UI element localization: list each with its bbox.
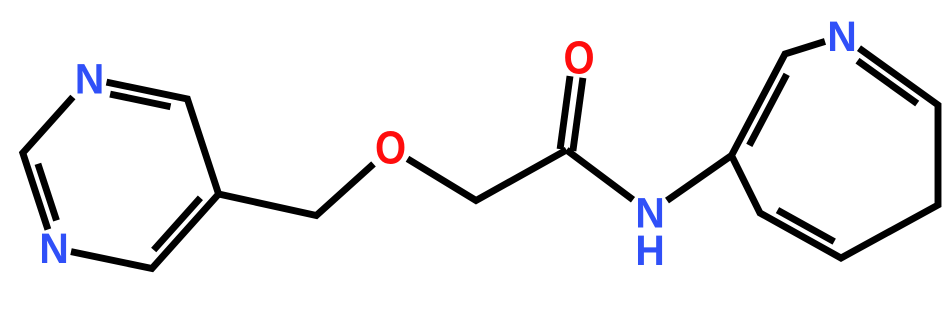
double bond inner line C4p=C5p bbox=[778, 210, 835, 242]
svg-text:N: N bbox=[827, 12, 857, 60]
double bond inner line C2=N3 bbox=[38, 164, 57, 221]
carbonyl C=O double bond left line bbox=[560, 76, 570, 149]
svg-text:O: O bbox=[375, 123, 406, 174]
double bond inner line C6=N1 bbox=[110, 94, 170, 107]
carbonyl C=O double bond right line bbox=[573, 78, 583, 151]
double bond inner line C4=C5 bbox=[154, 198, 201, 250]
double bond inner line C2p=C3p bbox=[749, 74, 786, 145]
amide bond Cc-Nam bbox=[567, 150, 634, 200]
svg-text:N: N bbox=[39, 224, 69, 272]
pyrimidine ring bonds N3-C4-C5-C6-N1 bbox=[71, 82, 219, 268]
svg-text:H: H bbox=[635, 226, 665, 274]
double bond inner line C7p=N1p bbox=[858, 61, 918, 104]
pyrimidine ring bonds N1-C2-N3 bbox=[23, 97, 73, 230]
svg-text:O: O bbox=[563, 33, 594, 84]
bonds C5-CH2a-O1 (ether linker) bbox=[219, 164, 374, 216]
bonds O1-CH2b-Cc bbox=[408, 150, 567, 201]
bond Nam-C3p (N-aryl) bbox=[667, 156, 732, 201]
svg-text:N: N bbox=[75, 55, 105, 103]
pyridine-type ring bonds bbox=[732, 41, 939, 258]
